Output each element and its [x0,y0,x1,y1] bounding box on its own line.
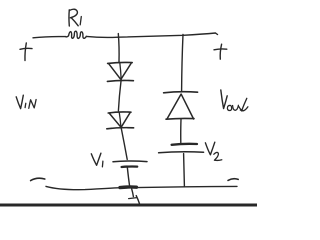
wire D1 to D2 [118,81,121,111]
minus (Vin) [31,178,45,180]
label R1 [69,9,81,26]
label V1 [91,153,103,167]
plus (Vin) [20,43,32,61]
label Vin [16,95,36,108]
resistor R1 [66,31,87,38]
wire V1 to ground bus [127,168,129,186]
wire top-left (Vin+ to R1) [33,37,66,38]
wire V2 to ground bus [183,154,186,187]
label Vout [221,90,248,111]
wire bus bottom-right [136,186,237,187]
wire node B down to diode D3 [182,34,183,91]
diode D3 [164,92,198,119]
wire bus bottom-left [46,186,121,189]
minus (Vout) [228,179,238,181]
wire top-mid (R1 to node A) [86,36,118,37]
ground [129,189,140,204]
wire top-right (node A to Vout+) [118,33,218,37]
plus (Vout) [214,44,227,59]
diode D2 [107,112,134,129]
label V2 [205,142,221,160]
wire D3 to battery V2 [180,119,182,142]
junction node (thick) [120,185,136,189]
wire node A down to diode D1 [117,34,120,62]
diode D1 [107,62,133,81]
battery V1 [113,161,147,167]
wire D2 to battery V1 [121,129,127,159]
battery V2 [159,144,204,153]
